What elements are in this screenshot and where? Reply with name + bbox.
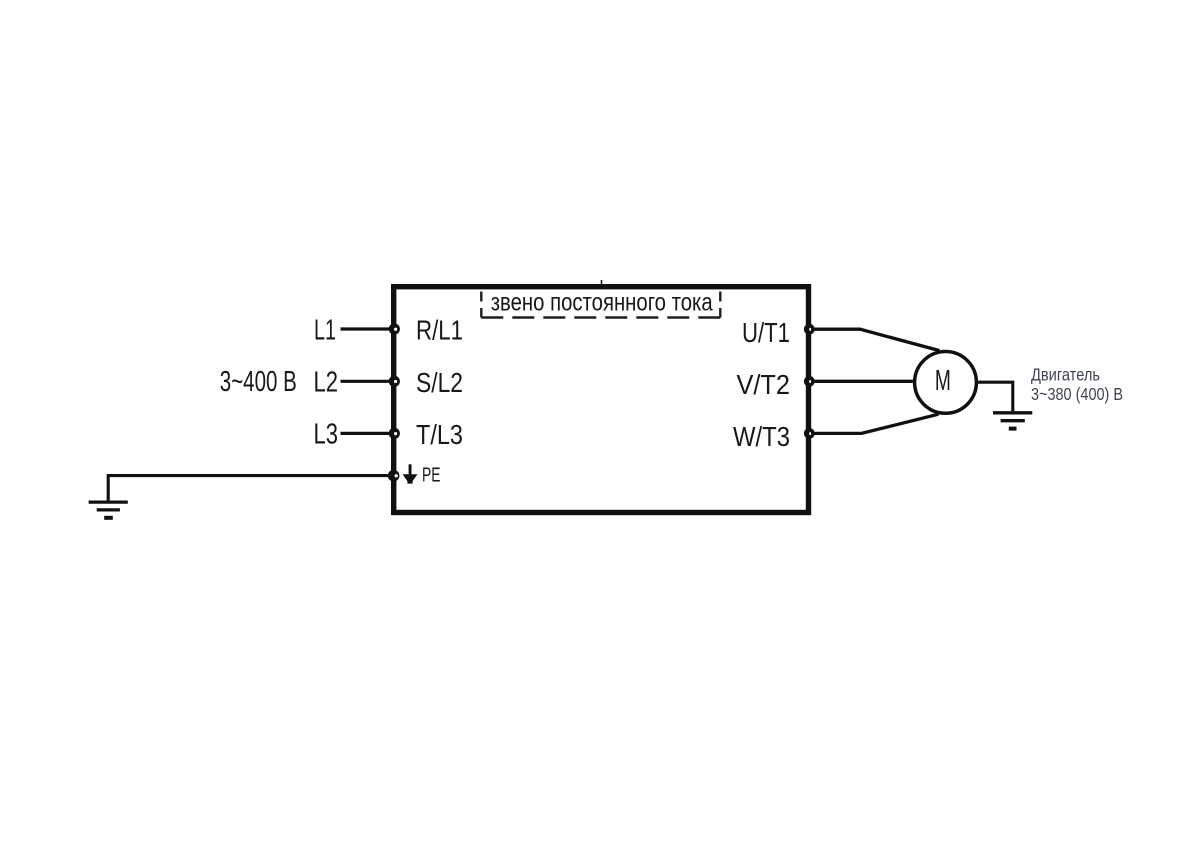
terminal W/T3 dot (804, 428, 815, 439)
terminal R/L1 dot (389, 323, 400, 334)
PE arrow (403, 464, 418, 483)
wire U/T1 to motor (811, 329, 940, 350)
svg-text:Двигатель: Двигатель (1031, 365, 1100, 385)
ground (left) (89, 502, 128, 518)
wire W/T3 to motor (811, 414, 939, 433)
svg-text:3~380 (400) В: 3~380 (400) В (1031, 384, 1123, 404)
svg-text:S/L2: S/L2 (416, 367, 463, 398)
motor M1 circle (915, 352, 977, 414)
wire motor to ground (977, 382, 1013, 411)
wire PE to ground (108, 476, 392, 501)
svg-text:M: M (935, 365, 951, 397)
terminal S/L2 dot (389, 376, 400, 387)
svg-text:3~400 В: 3~400 В (220, 366, 297, 398)
svg-text:T/L3: T/L3 (416, 419, 463, 450)
svg-text:R/L1: R/L1 (416, 314, 463, 345)
svg-text:V/T2: V/T2 (737, 369, 791, 400)
svg-text:L3: L3 (314, 419, 339, 451)
terminal U/T1 dot (804, 324, 815, 335)
wire L2 stub (341, 380, 395, 383)
wire V/T2 to motor (811, 380, 914, 383)
svg-text:W/T3: W/T3 (733, 421, 790, 452)
terminal T/L3 dot (389, 428, 400, 439)
terminal V/T2 dot (804, 376, 815, 387)
wire L3 stub (341, 432, 395, 435)
svg-text:U/T1: U/T1 (742, 317, 790, 348)
svg-text:L2: L2 (314, 367, 339, 399)
svg-text:PE: PE (422, 465, 441, 487)
svg-text:L1: L1 (314, 315, 336, 347)
DC link dashed label box (481, 292, 720, 318)
DC link top tick (601, 280, 603, 286)
wire L1 stub (341, 327, 395, 330)
terminal PE dot (388, 470, 400, 482)
svg-text:звено постоянного тока: звено постоянного тока (491, 290, 713, 317)
converter box U1 (394, 287, 809, 513)
ground (right, motor) (993, 413, 1032, 429)
